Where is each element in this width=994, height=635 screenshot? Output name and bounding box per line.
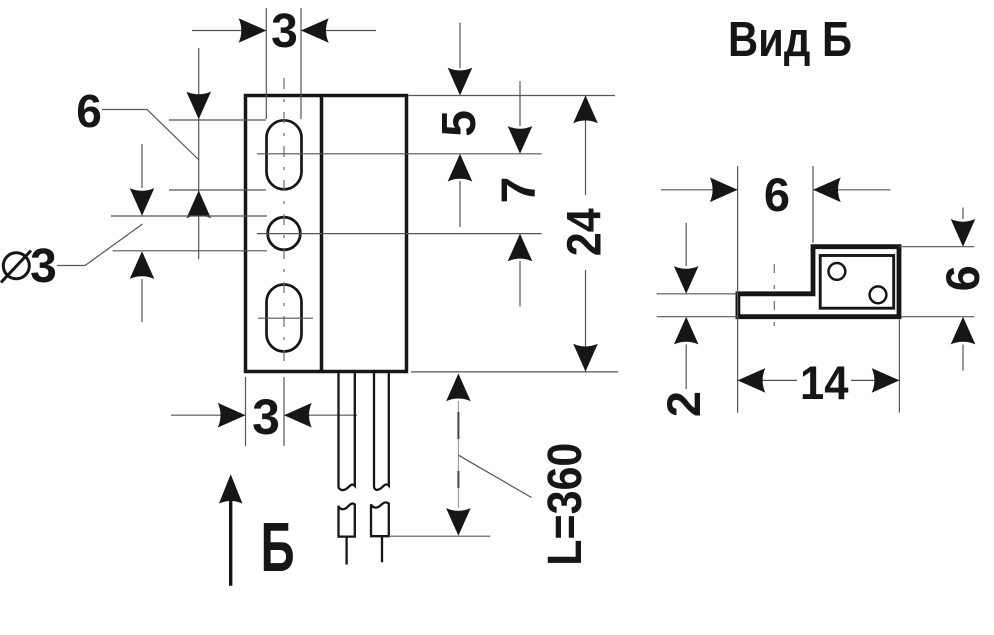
- dim 7 down arrow: [508, 126, 533, 154]
- dim 24 text (rotated): [558, 208, 611, 256]
- dia symbol circle with slash: [1, 251, 31, 283]
- title Vid B: [728, 13, 852, 67]
- view direction arrow B shaft: [229, 500, 232, 586]
- dim 24 lower line segment with down arrow: [573, 270, 598, 372]
- view direction arrow B head: [219, 474, 243, 503]
- dim dia3 up arrow: [130, 251, 155, 279]
- horizontal centerline circle extended right: [257, 233, 542, 235]
- dim 7 text (rotated): [493, 177, 546, 204]
- side dim 6 right down arrow: [951, 219, 976, 247]
- top dim 3 text: [271, 5, 298, 58]
- wire 1 upper segment with break: [339, 373, 355, 490]
- dim L wire end extension line: [389, 535, 490, 537]
- svg-text:Вид Б: Вид Б: [728, 13, 852, 67]
- dim L shaft (thin with dashes): [457, 401, 459, 508]
- dim 6 extension line bottom (slot bottom): [169, 189, 266, 191]
- side dim 6 right up arrow: [951, 317, 976, 345]
- side dim 6 right extension line bottom (block bottom): [901, 316, 974, 318]
- dim 7 up arrow: [508, 234, 533, 262]
- dim dia3 upper line segment: [141, 144, 143, 188]
- bracket side view outline: [738, 247, 899, 317]
- side dim 6 text: [764, 168, 790, 221]
- bracket hole circle lower-right: [870, 286, 887, 303]
- bracket hole circle upper-left: [829, 263, 846, 280]
- svg-text:7: 7: [493, 177, 546, 204]
- dia3 text digit: [30, 240, 57, 293]
- svg-text:3: 3: [271, 5, 298, 58]
- top dim 3 extension line left: [265, 8, 267, 119]
- side dim 2 upper line segment: [685, 223, 687, 266]
- side dim 2 up arrow: [674, 317, 699, 345]
- side dim 14 extension line right: [898, 320, 900, 413]
- wire 1 lead: [345, 537, 347, 565]
- label 6 text (slot length): [76, 85, 102, 137]
- side dim 14 text: [800, 356, 849, 409]
- wire 2 end piece: [371, 502, 389, 536]
- side dim 6 right upper line segment: [962, 208, 964, 220]
- wire 2 upper segment with break: [374, 373, 389, 490]
- body top edge extension line right: [408, 95, 615, 97]
- label 6 leader line: [102, 110, 199, 161]
- dim L down arrow: [446, 508, 471, 536]
- svg-text:6: 6: [936, 265, 989, 291]
- svg-text:Б: Б: [261, 508, 295, 586]
- dim L leader line: [458, 455, 531, 497]
- bottom dim 3 left-pointing arrow: [284, 403, 312, 428]
- view direction label B: [261, 508, 295, 586]
- dim 7 lower line segment: [519, 261, 521, 307]
- mounting slot top: [267, 120, 302, 189]
- dia3 leader line: [57, 224, 143, 266]
- bottom dim 3 dimension line right tail: [284, 414, 357, 416]
- top dim 3 extension line right: [300, 8, 302, 119]
- dim dia3 extension line top (circle top): [111, 215, 267, 217]
- dim 5 text (rotated): [433, 110, 486, 137]
- top dim 3 arrow left-pointing: [301, 18, 329, 43]
- center hole: [268, 217, 301, 250]
- top dim 3 dimension line right segment: [301, 30, 376, 32]
- wire 2 lead: [381, 536, 383, 562]
- L=360 text (rotated): [539, 443, 592, 566]
- dim 5 up arrow: [448, 154, 473, 182]
- side dim 6 right-pointing arrow: [710, 178, 738, 203]
- side dim 6 right text (rotated): [936, 265, 989, 291]
- side dim 6 right lower line segment: [962, 344, 964, 370]
- bottom dim 3 extension line left (body edge): [245, 377, 247, 446]
- dim 24 upper line segment with up arrow: [573, 96, 598, 196]
- bottom dim 3 right-pointing arrow: [218, 403, 246, 428]
- top dim 3 arrow right-pointing: [239, 18, 267, 43]
- side dim 2 text (rotated): [657, 391, 710, 417]
- side dim 2 extension line top (foot top): [657, 293, 738, 295]
- bottom dim 3 dimension line left tail: [171, 414, 246, 416]
- sensor body outline: [246, 96, 407, 372]
- dim 6 dimension line vertical: [198, 48, 200, 259]
- horizontal centerline slot bottom: [258, 317, 313, 319]
- bracket dashed centerline: [773, 264, 775, 338]
- side dim 6 extension line right: [812, 166, 814, 243]
- dim 6 down arrow: [186, 92, 211, 120]
- side dim 2 lower line segment: [685, 344, 687, 389]
- svg-text:6: 6: [764, 168, 790, 221]
- dim 5 down arrow: [448, 68, 473, 96]
- dim 6 up arrow: [186, 191, 211, 219]
- side dim 6 right extension line top (block top): [899, 246, 974, 248]
- dim 5 upper line segment: [459, 23, 461, 68]
- mounting slot bottom: [267, 285, 302, 352]
- side dim 14 dimension line left segment with left-pointing arrow: [738, 368, 797, 393]
- dim dia3 lower line segment: [141, 279, 143, 322]
- svg-text:L=360: L=360: [539, 443, 592, 566]
- dim 6 extension line top (slot top): [169, 119, 266, 121]
- side dim 6 dimension line right tail: [813, 189, 890, 191]
- dim L up arrow: [446, 374, 471, 402]
- svg-text:3: 3: [30, 240, 57, 293]
- side dim 6 dimension line left tail: [661, 189, 738, 191]
- top dim 3 dimension line left segment: [192, 30, 266, 32]
- svg-text:24: 24: [558, 208, 611, 256]
- svg-text:3: 3: [252, 389, 280, 445]
- side dim 6 left-pointing arrow: [813, 178, 841, 203]
- side dim 14 dimension line right segment with right-pointing arrow: [851, 368, 899, 393]
- centerline below body (extension for bottom 3 dim): [283, 377, 285, 446]
- side dim 2 extension line bottom (foot bottom) left: [657, 316, 738, 318]
- wire 1 end piece: [339, 504, 355, 537]
- dim 5 lower line segment: [459, 181, 461, 227]
- side dim 6 extension line left: [737, 166, 739, 413]
- bracket inner rectangle: [820, 256, 894, 309]
- body bottom edge extension line right: [411, 371, 618, 373]
- horizontal centerline slot top extended right: [257, 153, 542, 155]
- svg-text:14: 14: [800, 356, 849, 409]
- dim dia3 extension line bottom (circle bottom): [113, 250, 267, 252]
- svg-text:2: 2: [657, 391, 710, 417]
- side dim 2 down arrow: [674, 266, 699, 294]
- body divider line: [320, 96, 324, 372]
- svg-text:5: 5: [433, 110, 486, 137]
- bottom dim 3 text: [252, 389, 280, 445]
- dim 7 upper line segment: [519, 81, 521, 126]
- svg-text:6: 6: [76, 85, 102, 137]
- dim dia3 down arrow: [130, 188, 155, 216]
- vertical centerline of holes: [283, 78, 285, 368]
